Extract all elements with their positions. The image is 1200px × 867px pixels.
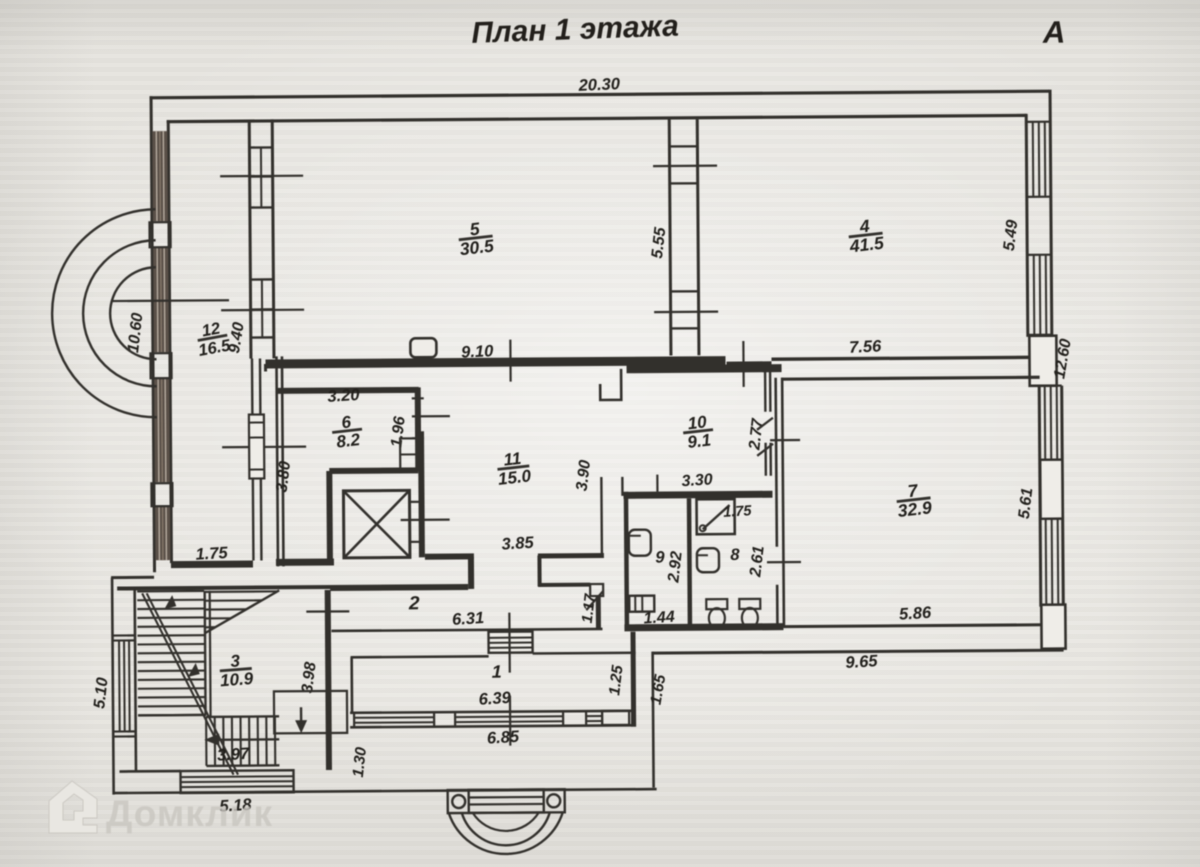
labels 9 and 8 [655,549,665,567]
svg-text:3.98: 3.98 [299,661,319,694]
door swing at corridor end [586,591,603,610]
dimension 9.40 (rotated) [226,321,248,355]
dimension 6.85 [486,728,520,748]
room 7 top wall [771,357,1039,379]
sink room 9 [629,530,651,556]
svg-text:9.65: 9.65 [845,652,879,672]
watermark Домклик text [106,793,273,834]
svg-text:2.92: 2.92 [665,550,686,584]
svg-text:1.44: 1.44 [643,609,675,628]
svg-text:А: А [1042,15,1066,50]
label room 11 [495,448,533,489]
svg-text:9.40: 9.40 [226,321,248,355]
duct boxes above shaft [400,438,418,469]
tick 2.77 [770,439,800,441]
dimension 5.55 (rotated) [649,225,670,259]
stair block outer walls [111,576,333,795]
svg-text:15.0: 15.0 [497,466,533,489]
stair lower run risers [138,714,279,766]
window sill boxes on left wall [149,222,172,506]
dimension 5.18 [219,796,253,816]
svg-text:1.17: 1.17 [579,592,599,624]
tick 2.61 [767,561,801,563]
watermark Domclick logo [49,781,97,833]
svg-text:2.61: 2.61 [747,545,768,579]
dimension 2.61 (rotated) [747,545,768,579]
windows on right wall (room 4) [1026,122,1052,335]
room 7 bottom inner wall [783,625,1042,627]
vent box on wall [410,338,436,363]
svg-text:9.10: 9.10 [461,342,495,361]
wall: right outer (room 4) [1026,90,1052,357]
washer room 9 [629,596,654,612]
bath bottom wall [624,627,783,628]
dimension 1.65 (rotated) [647,673,669,706]
dimension 9.65 [845,652,879,672]
section mark A [1042,15,1066,50]
room 7 left wall [776,378,784,627]
hall 1 left wall [350,657,353,714]
label room 5 [457,217,495,259]
down arrow near landing [295,707,307,733]
stair upper run treads [137,591,210,718]
entry steps left [180,770,293,793]
svg-text:Домклик: Домклик [106,793,273,834]
dimension 1.17 (rotated) [579,592,600,624]
dimension 5.10 (rotated) [91,676,112,709]
dimension 3.97 [217,745,251,765]
dimension 1.96 (rotated) [388,415,409,448]
entrance porch columns [452,794,560,808]
svg-text:5.55: 5.55 [649,225,670,259]
label room 6 [330,411,364,452]
bath top wall [623,494,772,495]
svg-text:9.1: 9.1 [686,430,712,452]
tick 3.30 vertical [656,475,658,492]
svg-text:План 1 этажа: План 1 этажа [471,10,679,50]
dimension 5.86 [899,604,933,624]
tick x=511 [509,340,512,382]
dimension 10.60 (rotated) [125,312,147,354]
svg-text:3.85: 3.85 [501,534,535,554]
entrance porch outline [448,789,565,813]
corner box bottom right [1041,605,1065,649]
svg-text:6.85: 6.85 [486,728,520,748]
svg-text:1.96: 1.96 [388,415,408,448]
svg-text:30.5: 30.5 [459,235,495,259]
svg-text:10.60: 10.60 [125,312,146,354]
svg-text:2.77: 2.77 [746,417,767,452]
svg-text:1.75: 1.75 [195,544,229,564]
stair upper-right treads with diagonal [205,590,279,633]
svg-text:3.97: 3.97 [217,745,251,765]
stair double diagonal cut line [142,593,238,776]
dimension 1.30 (rotated) [350,746,371,779]
svg-text:1.75: 1.75 [723,503,753,521]
hall 1 bottom wall with windows [350,711,632,728]
wall above room 10 [727,361,772,366]
tick x=744 [742,341,745,387]
dimension 7.56 [849,337,883,356]
windows on right wall (room 7) [1039,386,1064,605]
room 6 walls [276,355,420,566]
partition rooms 12|5 with windows [249,119,275,358]
svg-text:1: 1 [492,662,502,682]
corridor window to hall [488,632,532,653]
dimension ticks partition 5|4 [653,166,718,312]
dimension tick on left wall [111,299,229,302]
svg-text:3.20: 3.20 [327,386,361,406]
entrance porch steps [469,789,544,813]
thick wall below rooms 5/4 [266,361,726,372]
window in wall room12|6 [248,358,264,560]
wall pier box right middle [1029,336,1056,386]
dimension 5.61 (rotated) [1016,487,1037,520]
room 10 top wall [627,368,782,369]
label room 12 [194,318,233,360]
svg-text:5.86: 5.86 [899,604,933,624]
label 1.75 shower [723,503,753,521]
wall: top inner [167,115,1027,121]
dimension 12.60 (rotated) [1051,337,1075,380]
notch/duct below wall [600,369,621,400]
svg-text:2: 2 [408,593,420,614]
wall: left outer [151,96,171,572]
label room 2 [408,593,420,614]
dimension 3.20 [327,386,361,406]
dimension 1.25 (rotated) [606,664,627,697]
svg-text:32.9: 32.9 [897,497,933,521]
label room 10 [681,412,715,453]
dimension ticks partition 12|5 [220,176,304,311]
elevator shaft with X [343,490,409,557]
stair up arrowheads [164,595,200,677]
left arrow lower run [204,733,279,746]
bay window arcs left [51,209,157,418]
dimension 3.90 (rotated) [573,459,594,492]
dimension 1.44 [643,609,675,628]
dimension 6.31 [452,609,485,629]
svg-text:6.31: 6.31 [452,609,485,629]
window strips on left outer wall [152,131,170,560]
room 12 bottom wall [171,562,334,565]
title "План 1 этажа" [471,10,679,50]
wall: top outer [150,91,1050,98]
dimension 2.92 (rotated) [665,550,686,584]
corridor2 top wall [330,587,468,588]
sink room 8 [697,548,719,572]
bottom strip walls [112,652,657,793]
toilet 1 [706,599,727,628]
door marks room 7 [757,418,773,456]
svg-text:1.25: 1.25 [606,664,626,696]
label room 3 [218,650,254,690]
corridor 2 bottom line [331,629,602,631]
svg-text:9: 9 [655,549,665,567]
dimension 1.75 room12 [195,544,229,564]
svg-text:5.49: 5.49 [1001,219,1021,252]
tick on room6 left wall [222,446,306,449]
wall: right outer (room 7) [1039,386,1063,649]
tick x=508 upper [508,613,511,673]
dimension 3.30 [681,471,713,490]
dimension 5.49 (rotated) [1001,219,1022,252]
dimension 9.10 [461,342,495,361]
tick left of corridor [306,610,349,613]
door rungs right of room 6 [412,398,450,438]
svg-text:7.56: 7.56 [849,337,883,356]
partition rooms 5|4 with windows [669,119,700,355]
svg-text:8.2: 8.2 [335,430,361,452]
svg-text:3.80: 3.80 [274,460,294,493]
label room 4 [846,214,885,256]
wall pier box right lower [1040,460,1062,519]
narrow duct corridor walls [601,477,623,556]
svg-text:20.30: 20.30 [577,75,621,95]
bottom outer wall [653,650,1064,653]
wall 1.17 piece [590,584,603,629]
bath divider wall 9|8 [687,498,692,628]
label room 1 [492,662,502,682]
svg-text:1.65: 1.65 [648,673,670,706]
landing rect by stairs [274,691,347,734]
svg-text:5.10: 5.10 [91,677,111,710]
bath left wall [626,492,627,629]
toilet 2 [739,599,760,628]
svg-text:1.30: 1.30 [350,746,370,778]
entrance porch arcs [449,812,563,854]
room 11 bottom wall + jog [425,555,604,589]
room 10 right wall [765,371,771,476]
dimension 3.85 [501,534,535,554]
stair left wall window [112,635,136,736]
label room 7 [895,479,933,521]
svg-text:5.61: 5.61 [1016,487,1036,520]
dimension 2.77 (rotated) [746,417,767,452]
hall 1 top wall [351,653,636,658]
svg-text:41.5: 41.5 [848,233,885,257]
svg-text:10.9: 10.9 [219,669,254,691]
rungs right of shaft [401,502,450,542]
hall 1 right wall [630,632,636,727]
dimension 3.98 (rotated) [299,661,320,694]
svg-text:8: 8 [730,546,740,564]
svg-text:3.90: 3.90 [574,459,594,492]
dimension 20.30 top [577,75,621,95]
dimension 3.80 (rotated) [273,460,294,493]
dimension 6.39 [478,689,512,709]
tick x=508 lower [509,696,512,746]
shower square with diagonal [697,499,735,534]
window box right in bottom wall [602,711,629,725]
wall right of shaft [418,431,425,557]
svg-text:3.30: 3.30 [681,471,713,490]
svg-text:6.39: 6.39 [478,689,512,709]
